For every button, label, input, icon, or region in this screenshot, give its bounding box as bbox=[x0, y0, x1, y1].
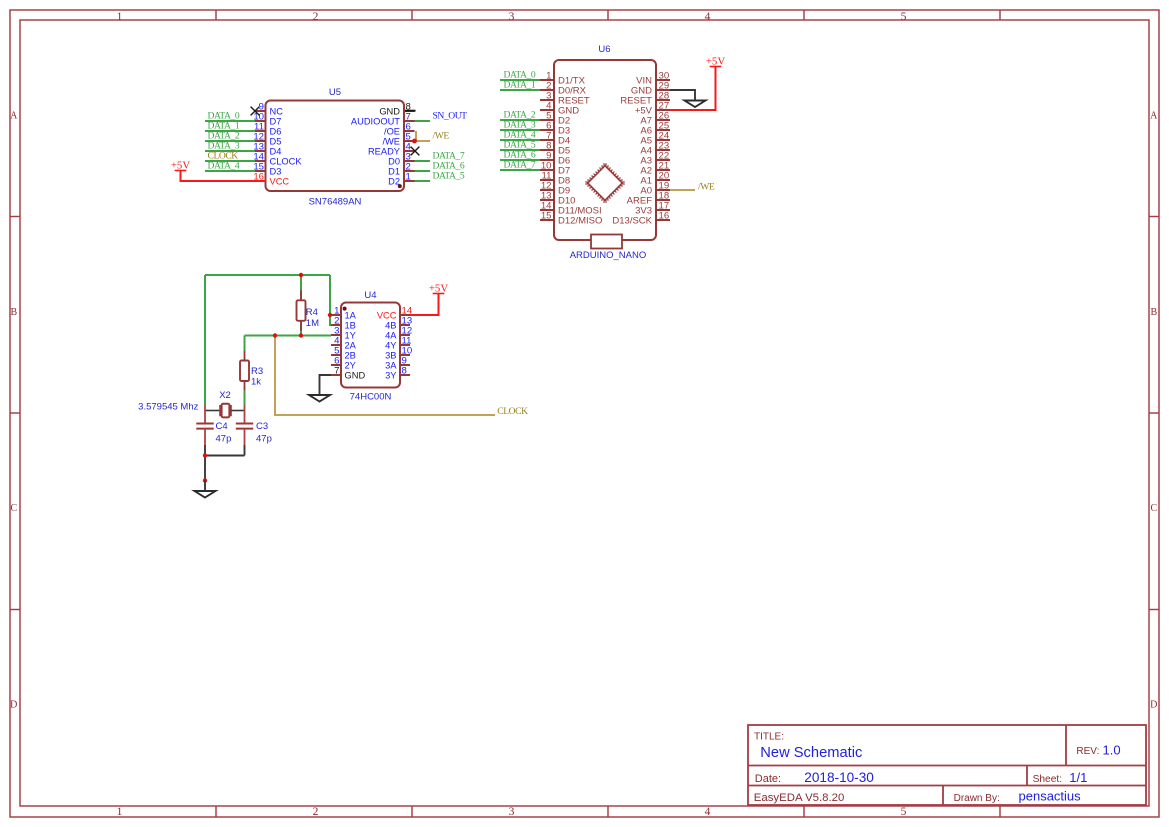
svg-text:DATA_7: DATA_7 bbox=[504, 160, 536, 171]
svg-text:C: C bbox=[1150, 503, 1157, 514]
svg-text:C3: C3 bbox=[256, 421, 268, 432]
svg-text:2018-10-30: 2018-10-30 bbox=[804, 770, 874, 785]
svg-text:VCC: VCC bbox=[270, 176, 290, 186]
svg-text:1/1: 1/1 bbox=[1069, 770, 1087, 785]
svg-text:DATA_5: DATA_5 bbox=[433, 171, 465, 182]
svg-text:Date:: Date: bbox=[755, 773, 781, 785]
svg-text:15: 15 bbox=[541, 211, 552, 222]
svg-text:D: D bbox=[10, 699, 17, 710]
svg-text:U4: U4 bbox=[364, 290, 376, 301]
svg-text:4B: 4B bbox=[385, 320, 396, 330]
svg-text:ARDUINO_NANO: ARDUINO_NANO bbox=[570, 250, 647, 261]
svg-text:U5: U5 bbox=[329, 87, 341, 98]
svg-text:+5V: +5V bbox=[171, 159, 190, 171]
svg-text:D0: D0 bbox=[388, 156, 400, 166]
svg-text:D13/SCK: D13/SCK bbox=[612, 216, 652, 227]
svg-text:D6: D6 bbox=[270, 126, 282, 136]
svg-text:D1: D1 bbox=[388, 166, 400, 176]
svg-text:3: 3 bbox=[509, 11, 515, 23]
svg-text:2A: 2A bbox=[345, 340, 357, 350]
svg-text:1M: 1M bbox=[306, 318, 319, 329]
svg-text:7: 7 bbox=[334, 366, 339, 377]
svg-text:3: 3 bbox=[509, 806, 515, 818]
svg-text:D7: D7 bbox=[270, 116, 282, 126]
svg-text:New Schematic: New Schematic bbox=[760, 745, 862, 761]
svg-text:8: 8 bbox=[402, 366, 407, 377]
svg-text:D12/MISO: D12/MISO bbox=[558, 216, 602, 227]
svg-text:D4: D4 bbox=[270, 146, 282, 156]
svg-text:A: A bbox=[10, 110, 18, 121]
svg-text:CLOCK: CLOCK bbox=[208, 151, 239, 162]
svg-text:TITLE:: TITLE: bbox=[754, 732, 784, 743]
svg-text:GND: GND bbox=[345, 370, 366, 380]
svg-text:/OE: /OE bbox=[384, 126, 400, 136]
svg-text:Sheet:: Sheet: bbox=[1033, 774, 1062, 785]
svg-text:1k: 1k bbox=[251, 377, 261, 388]
svg-text:B: B bbox=[10, 307, 17, 318]
svg-text:1Y: 1Y bbox=[345, 330, 356, 340]
svg-text:2B: 2B bbox=[345, 350, 356, 360]
svg-text:4: 4 bbox=[705, 11, 711, 23]
svg-text:1A: 1A bbox=[345, 310, 357, 320]
svg-text:VCC: VCC bbox=[377, 310, 397, 320]
svg-text:AUDIOOUT: AUDIOOUT bbox=[351, 116, 400, 126]
svg-text:X2: X2 bbox=[219, 390, 231, 401]
svg-text:CLOCK: CLOCK bbox=[497, 406, 528, 417]
svg-text:5: 5 bbox=[901, 11, 907, 23]
svg-text:U6: U6 bbox=[598, 44, 610, 55]
svg-text:DATA_1: DATA_1 bbox=[504, 80, 536, 91]
svg-text:2: 2 bbox=[313, 806, 319, 818]
svg-text:NC: NC bbox=[270, 106, 284, 116]
svg-text:16: 16 bbox=[659, 211, 670, 222]
svg-text:B: B bbox=[1150, 307, 1157, 318]
svg-text:47p: 47p bbox=[216, 433, 232, 444]
svg-text:47p: 47p bbox=[256, 433, 272, 444]
svg-text:2: 2 bbox=[313, 11, 319, 23]
svg-text:3B: 3B bbox=[385, 350, 396, 360]
svg-text:D5: D5 bbox=[270, 136, 282, 146]
svg-text:READY: READY bbox=[368, 146, 400, 156]
svg-text:/WE: /WE bbox=[433, 131, 450, 142]
svg-text:CLOCK: CLOCK bbox=[270, 156, 303, 166]
svg-text:3A: 3A bbox=[385, 360, 397, 370]
svg-text:4Y: 4Y bbox=[385, 340, 396, 350]
svg-text:R3: R3 bbox=[251, 366, 263, 377]
svg-text:2Y: 2Y bbox=[345, 360, 356, 370]
svg-text:3.579545 Mhz: 3.579545 Mhz bbox=[138, 402, 198, 413]
svg-text:3Y: 3Y bbox=[385, 370, 396, 380]
svg-text:+5V: +5V bbox=[429, 282, 448, 294]
svg-text:SN76489AN: SN76489AN bbox=[309, 197, 362, 208]
svg-text:A: A bbox=[1150, 110, 1158, 121]
svg-text:1B: 1B bbox=[345, 320, 356, 330]
svg-text:pensactius: pensactius bbox=[1019, 789, 1082, 804]
svg-text:C: C bbox=[10, 503, 17, 514]
svg-text:74HC00N: 74HC00N bbox=[350, 392, 392, 403]
svg-text:5: 5 bbox=[901, 806, 907, 818]
svg-text:R4: R4 bbox=[306, 307, 318, 318]
svg-text:REV:: REV: bbox=[1076, 746, 1099, 757]
svg-text:GND: GND bbox=[379, 106, 400, 116]
svg-text:4A: 4A bbox=[385, 330, 397, 340]
svg-text:1: 1 bbox=[117, 11, 123, 23]
svg-text:/WE: /WE bbox=[698, 182, 715, 193]
svg-text:D: D bbox=[1150, 699, 1157, 710]
svg-text:D3: D3 bbox=[270, 166, 282, 176]
svg-text:D2: D2 bbox=[388, 176, 400, 186]
svg-text:+5V: +5V bbox=[706, 55, 725, 67]
svg-text:C4: C4 bbox=[216, 421, 228, 432]
svg-text:SN_OUT: SN_OUT bbox=[433, 111, 468, 122]
svg-text:4: 4 bbox=[705, 806, 711, 818]
svg-text:1.0: 1.0 bbox=[1103, 743, 1121, 758]
svg-text:/WE: /WE bbox=[382, 136, 400, 146]
svg-text:Drawn By:: Drawn By: bbox=[954, 793, 1000, 804]
svg-text:DATA_4: DATA_4 bbox=[208, 161, 240, 172]
svg-text:EasyEDA V5.8.20: EasyEDA V5.8.20 bbox=[754, 792, 845, 804]
svg-text:1: 1 bbox=[117, 806, 123, 818]
svg-text:1: 1 bbox=[406, 172, 411, 183]
